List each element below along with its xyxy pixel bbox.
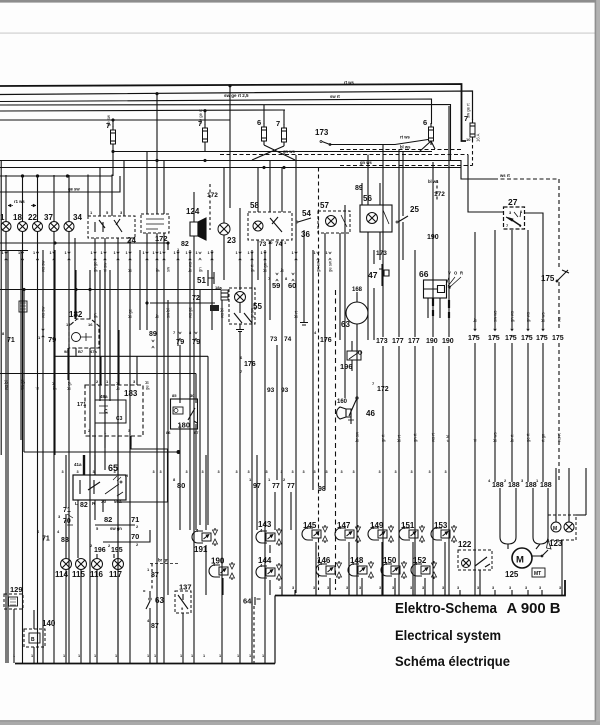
svg-text:176: 176 — [244, 361, 256, 368]
svg-text:3: 3 — [248, 470, 250, 474]
wire columns 175 right — [474, 232, 476, 330]
wires 188 to motor — [500, 488, 548, 510]
svg-text:C3: C3 — [116, 416, 123, 422]
svg-text:1: 1 — [248, 251, 250, 255]
svg-text:ws ge: ws ge — [188, 306, 193, 318]
svg-text:sw bl: sw bl — [166, 308, 171, 318]
ground bus step — [274, 596, 276, 664]
svg-text:188: 188 — [540, 482, 552, 489]
svg-text:63: 63 — [155, 596, 164, 605]
svg-text:br: br — [280, 268, 285, 272]
svg-text:br gn: br gn — [158, 558, 169, 563]
svg-text:190: 190 — [426, 338, 438, 345]
svg-text:sw ge rt 2,5: sw ge rt 2,5 — [224, 93, 249, 98]
wire col x240 upper — [239, 208, 241, 290]
svg-text:3: 3 — [346, 586, 348, 590]
wire column group mid2 — [312, 250, 314, 490]
svg-text:sw ge rt: sw ge rt — [198, 109, 203, 124]
svg-text:r1 ws: r1 ws — [14, 199, 25, 204]
svg-text:3: 3 — [281, 470, 283, 474]
svg-text:3: 3 — [477, 586, 479, 590]
wire 56 drops — [368, 232, 380, 340]
svg-text:73: 73 — [259, 241, 267, 248]
svg-text:1: 1 — [236, 251, 238, 255]
svg-text:3: 3 — [202, 470, 204, 474]
svg-text:1: 1 — [180, 654, 182, 658]
svg-text:41a: 41a — [74, 462, 82, 467]
svg-text:3: 3 — [186, 470, 188, 474]
lamp 34 — [64, 222, 74, 232]
wire 83 col — [65, 526, 67, 558]
svg-text:gn sw: gn sw — [316, 260, 321, 272]
svg-text:1: 1 — [314, 251, 316, 255]
wire 182 drops — [68, 348, 90, 663]
svg-text:183: 183 — [124, 389, 138, 398]
svg-text:3: 3 — [303, 470, 305, 474]
svg-text:196: 196 — [94, 547, 106, 554]
svg-text:bl gr: bl gr — [67, 381, 72, 390]
svg-text:6: 6 — [257, 118, 261, 127]
fuse box 18a — [221, 290, 228, 300]
svg-text:1: 1 — [31, 654, 33, 658]
wire mid dashed gn ws — [220, 154, 468, 156]
fuse 7 mid — [203, 128, 208, 142]
dim arrow left — [8, 205, 36, 207]
fuse 7 mid2 — [283, 111, 285, 126]
svg-text:R: R — [460, 271, 463, 276]
svg-text:177: 177 — [392, 338, 404, 345]
ground bus right — [275, 580, 565, 596]
wire mid h1 — [112, 151, 432, 153]
svg-text:145: 145 — [303, 521, 317, 530]
svg-text:177: 177 — [408, 338, 420, 345]
hline 183-180 link — [0, 356, 208, 373]
wire 183 drops — [95, 436, 131, 475]
svg-text:1: 1 — [94, 654, 96, 658]
svg-text:rt ws: rt ws — [344, 80, 354, 85]
wire dashed drop x559 — [558, 179, 560, 268]
svg-text:3: 3 — [359, 586, 361, 590]
svg-text:3: 3 — [379, 586, 381, 590]
svg-text:176: 176 — [320, 337, 332, 344]
wire 123 drop — [561, 540, 563, 595]
svg-text:ws rt: ws rt — [499, 173, 510, 178]
lamp 114 — [61, 559, 72, 570]
svg-text:1: 1 — [249, 654, 251, 658]
svg-text:175: 175 — [521, 335, 533, 342]
valve 151 — [399, 528, 410, 540]
wire main bus 2 — [0, 91, 473, 120]
lamp 23 — [223, 168, 225, 224]
svg-text:195: 195 — [111, 547, 123, 554]
svg-text:1: 1 — [154, 654, 156, 658]
svg-text:gr sw: gr sw — [250, 307, 255, 318]
wire main bus 5 — [0, 110, 285, 111]
svg-text:63: 63 — [341, 320, 350, 329]
svg-text:3: 3 — [341, 470, 343, 474]
svg-text:23: 23 — [227, 236, 236, 245]
svg-text:122: 122 — [458, 540, 472, 549]
lamp 22 — [33, 222, 43, 232]
wire cross fuse pair — [252, 145, 295, 160]
svg-text:3: 3 — [62, 470, 64, 474]
svg-text:3: 3 — [395, 470, 397, 474]
svg-text:A 900 B: A 900 B — [507, 601, 561, 617]
wire ge sw left — [0, 176, 120, 192]
svg-text:147: 147 — [337, 521, 351, 530]
svg-text:1: 1 — [13, 654, 15, 658]
svg-text:64: 64 — [243, 597, 252, 606]
svg-text:30: 30 — [101, 499, 107, 504]
svg-text:M: M — [553, 526, 557, 532]
svg-text:65: 65 — [108, 463, 118, 473]
svg-text:3: 3 — [292, 470, 294, 474]
relay 24 — [88, 216, 135, 238]
svg-text:175: 175 — [552, 335, 564, 342]
svg-text:72: 72 — [192, 295, 200, 302]
svg-text:140: 140 — [42, 619, 56, 628]
svg-text:ge sw: ge sw — [328, 260, 333, 272]
svg-text:190: 190 — [211, 557, 225, 566]
svg-text:7: 7 — [276, 119, 280, 128]
svg-text:vi: vi — [473, 439, 478, 442]
svg-text:152: 152 — [413, 556, 427, 565]
svg-text:3: 3 — [422, 586, 424, 590]
lamp 1 — [1, 222, 11, 232]
svg-text:3: 3 — [539, 586, 541, 590]
svg-text:ge sw: ge sw — [106, 114, 111, 126]
svg-text:ws rt: ws rt — [557, 432, 562, 442]
svg-text:Electrical system: Electrical system — [395, 627, 501, 643]
svg-text:MT: MT — [534, 571, 541, 577]
wire h line 303 — [150, 302, 215, 304]
svg-text:1: 1 — [326, 251, 328, 255]
svg-text:bl gn: bl gn — [263, 262, 268, 272]
svg-text:144: 144 — [258, 556, 272, 565]
svg-text:47a: 47a — [90, 349, 97, 354]
svg-text:59: 59 — [272, 281, 280, 290]
svg-text:3: 3 — [327, 586, 329, 590]
wire drop x468 to 27 — [468, 155, 503, 213]
svg-text:1: 1 — [237, 654, 239, 658]
svg-text:129: 129 — [10, 585, 23, 594]
wire 475 down — [474, 482, 476, 595]
svg-text:22: 22 — [28, 213, 37, 222]
valve 150 — [381, 564, 392, 576]
svg-text:bl rt: bl rt — [294, 310, 299, 318]
svg-text:gr rt: gr rt — [250, 264, 255, 272]
svg-text:125: 125 — [505, 570, 519, 579]
wire 180 feeds drops — [180, 345, 196, 530]
svg-text:bl ge: bl ge — [128, 308, 133, 318]
svg-text:1: 1 — [292, 251, 294, 255]
svg-text:1: 1 — [33, 251, 35, 255]
wire drop x113 — [112, 120, 114, 127]
svg-text:br rt: br rt — [510, 434, 515, 442]
svg-text:1: 1 — [196, 251, 198, 255]
svg-text:93: 93 — [281, 387, 289, 394]
svg-text:175: 175 — [488, 335, 500, 342]
motor 125 arm — [532, 550, 548, 556]
svg-text:gn ws: gn ws — [360, 160, 373, 165]
valve 145 — [302, 528, 313, 540]
dark box 185 — [210, 305, 219, 311]
wire 27 right to x543 — [524, 213, 543, 250]
svg-text:188: 188 — [492, 482, 504, 489]
wire 173 to fuse6 — [330, 140, 428, 145]
wire 65 drops — [78, 500, 118, 558]
wire dashed bl ws right — [340, 149, 462, 151]
svg-text:188: 188 — [525, 482, 537, 489]
svg-text:gr bl: gr bl — [52, 382, 57, 390]
svg-text:70: 70 — [131, 532, 139, 541]
svg-text:gn: gn — [93, 313, 98, 318]
svg-text:sw ge rt: sw ge rt — [466, 103, 471, 118]
svg-text:M: M — [516, 555, 524, 566]
svg-text:153: 153 — [434, 521, 448, 530]
svg-text:83: 83 — [61, 537, 69, 544]
fuse 7 left — [111, 130, 116, 144]
page right grey margin — [596, 0, 600, 725]
wire col 304 with ground — [303, 230, 305, 322]
svg-text:188: 188 — [508, 482, 520, 489]
svg-text:57: 57 — [320, 201, 329, 210]
wire fuse7 dashed drop — [472, 139, 474, 166]
svg-text:3: 3 — [218, 470, 220, 474]
lamp 55 box — [229, 288, 255, 324]
wire 58 feeds — [258, 161, 282, 213]
wire stub 250 — [0, 250, 28, 252]
wire feeds 24 — [88, 161, 124, 217]
wire lamp drops — [5, 231, 7, 663]
svg-text:1: 1 — [261, 251, 263, 255]
bold ticks cols 190 — [432, 298, 434, 306]
wire 123 feeds — [556, 468, 569, 522]
small box left M — [19, 301, 27, 312]
wire mid h2 — [0, 161, 494, 180]
svg-text:vi sw: vi sw — [103, 262, 108, 272]
svg-text:1: 1 — [2, 251, 4, 255]
svg-text:ws bl: ws bl — [220, 308, 225, 318]
wire left edge — [0, 161, 2, 456]
valve 191 — [192, 531, 203, 543]
svg-text:1: 1 — [147, 654, 149, 658]
svg-text:137: 137 — [179, 583, 192, 592]
valve 149 — [368, 528, 379, 540]
relay 65 — [73, 475, 126, 500]
svg-text:rt ws: rt ws — [400, 135, 410, 140]
svg-text:34: 34 — [73, 213, 82, 222]
svg-text:148: 148 — [350, 556, 364, 565]
svg-text:16 A: 16 A — [476, 133, 481, 142]
wire mid h3 — [0, 167, 461, 169]
svg-text:1: 1 — [160, 251, 162, 255]
svg-text:vi: vi — [35, 387, 40, 390]
svg-text:47: 47 — [368, 270, 378, 280]
svg-text:49a: 49a — [100, 394, 108, 399]
svg-text:1: 1 — [174, 251, 176, 255]
lamp 18 — [18, 222, 28, 232]
svg-text:3: 3 — [392, 586, 394, 590]
svg-text:Elektro-Schema: Elektro-Schema — [395, 601, 498, 617]
wire drop x230 — [229, 86, 231, 209]
fuse 7 right — [470, 123, 475, 137]
svg-text:3: 3 — [379, 470, 381, 474]
wire lamp feeds left — [5, 175, 7, 222]
svg-text:172: 172 — [207, 192, 218, 199]
svg-text:143: 143 — [258, 520, 272, 529]
svg-text:190: 190 — [442, 338, 454, 345]
svg-text:3: 3 — [353, 470, 355, 474]
svg-text:93: 93 — [267, 387, 275, 394]
svg-text:1: 1 — [203, 654, 205, 658]
wire junction line 452 — [24, 451, 179, 453]
svg-text:3: 3 — [411, 470, 413, 474]
svg-text:117: 117 — [109, 570, 122, 579]
svg-text:1: 1 — [63, 654, 65, 658]
wire 65 56a loop — [118, 436, 168, 502]
svg-text:3: 3 — [559, 586, 561, 590]
svg-text:82: 82 — [181, 241, 189, 248]
svg-text:gn ge: gn ge — [93, 261, 98, 272]
svg-text:18a: 18a — [215, 285, 222, 290]
fuse 6 right — [429, 127, 434, 141]
svg-text:3: 3 — [266, 470, 268, 474]
svg-text:sw ws: sw ws — [493, 311, 498, 322]
svg-text:149: 149 — [370, 521, 384, 530]
svg-text:30: 30 — [190, 393, 195, 398]
svg-text:ws sw: ws sw — [41, 260, 46, 272]
svg-text:ws sw: ws sw — [41, 306, 46, 318]
wires low mid — [206, 545, 270, 595]
svg-text:1: 1 — [126, 251, 128, 255]
page top grey bar — [0, 0, 600, 3]
svg-text:124: 124 — [186, 207, 200, 216]
motor 125 — [512, 548, 532, 568]
svg-text:16: 16 — [88, 322, 93, 327]
wire mid h4 left — [0, 175, 112, 177]
svg-text:3: 3 — [442, 586, 444, 590]
wire drop x205 — [204, 111, 206, 126]
svg-text:175: 175 — [505, 335, 517, 342]
svg-text:3: 3 — [429, 470, 431, 474]
svg-text:1: 1 — [101, 251, 103, 255]
valve 152 — [411, 564, 422, 576]
svg-text:18: 18 — [13, 213, 22, 222]
svg-text:3: 3 — [326, 470, 328, 474]
svg-text:146: 146 — [317, 556, 331, 565]
svg-text:3: 3 — [93, 470, 95, 474]
svg-text:gr rt: gr rt — [381, 434, 386, 442]
svg-text:190: 190 — [427, 234, 439, 241]
svg-text:rt gn: rt gn — [541, 433, 546, 442]
wire drop x157 — [156, 95, 158, 152]
svg-text:3: 3 — [445, 470, 447, 474]
svg-text:gn ws: gn ws — [510, 311, 515, 322]
svg-text:87: 87 — [151, 623, 159, 630]
svg-text:25: 25 — [410, 205, 419, 214]
wire main bus 6 — [0, 119, 230, 121]
wire columns 173/177/190 — [382, 346, 384, 595]
wires valves drops — [315, 542, 317, 595]
wire 57 drops — [325, 233, 340, 490]
svg-text:98: 98 — [318, 486, 326, 493]
svg-text:gr: gr — [155, 268, 160, 272]
svg-text:3: 3 — [153, 470, 155, 474]
wire 27 drops — [495, 230, 528, 232]
svg-text:77: 77 — [272, 483, 280, 490]
valve 190 low — [209, 565, 220, 577]
svg-text:1: 1 — [219, 654, 221, 658]
valve 153 — [431, 528, 442, 540]
wire feeds 183 — [101, 330, 137, 385]
svg-text:10: 10 — [268, 240, 273, 245]
svg-text:B7: B7 — [78, 349, 84, 354]
svg-text:3: 3 — [160, 470, 162, 474]
svg-text:3: 3 — [279, 586, 281, 590]
wire feeds 65 — [95, 455, 118, 475]
svg-text:173: 173 — [376, 338, 388, 345]
svg-text:rt bl: rt bl — [446, 435, 451, 442]
svg-text:ge rt: ge rt — [526, 433, 531, 442]
svg-text:1: 1 — [191, 654, 193, 658]
svg-text:71: 71 — [131, 515, 139, 524]
svg-text:180: 180 — [178, 421, 191, 430]
svg-text:H: H — [125, 473, 128, 478]
svg-text:3: 3 — [314, 470, 316, 474]
svg-text:70: 70 — [63, 518, 71, 525]
wire col 21 — [20, 250, 22, 440]
wire column group mid — [167, 300, 169, 595]
svg-text:bl ws: bl ws — [541, 312, 546, 322]
pin ticks bus right — [281, 590, 283, 595]
wire 172 drops — [147, 233, 164, 663]
svg-text:15: 15 — [66, 322, 71, 327]
wire column dashed 335 — [335, 290, 337, 590]
svg-text:150: 150 — [383, 556, 397, 565]
wire 172 feeds — [147, 152, 164, 215]
svg-text:3: 3 — [410, 586, 412, 590]
lamp 116 — [92, 559, 103, 570]
wire 55 drops — [222, 300, 240, 663]
svg-text:86: 86 — [166, 430, 171, 435]
svg-text:1: 1 — [208, 251, 210, 255]
svg-text:gn: gn — [198, 267, 203, 272]
wire mid dashed gn ws 2 — [340, 165, 473, 167]
svg-text:77: 77 — [287, 483, 295, 490]
wire 58 drops — [258, 240, 282, 595]
relay 180 — [171, 399, 198, 429]
svg-text:115: 115 — [72, 570, 85, 579]
svg-text:3: 3 — [292, 586, 294, 590]
svg-text:bl ws: bl ws — [428, 179, 439, 184]
svg-text:B: B — [31, 637, 35, 643]
svg-text:1: 1 — [143, 251, 145, 255]
wire main bus 1 — [0, 84, 466, 141]
big circle 63 instrument — [346, 302, 368, 324]
wire 24 drops — [95, 238, 130, 663]
svg-text:ws: ws — [557, 317, 562, 322]
sender 196 — [347, 351, 361, 360]
svg-text:ge bl: ge bl — [145, 381, 150, 390]
valve 147 — [335, 528, 346, 540]
svg-text:br: br — [155, 314, 160, 318]
valve 143 — [256, 531, 267, 543]
svg-text:54: 54 — [302, 209, 311, 218]
svg-text:1: 1 — [78, 654, 80, 658]
wire fuse6 bottom diagonals — [419, 141, 435, 152]
svg-text:sw rt: sw rt — [330, 94, 340, 99]
